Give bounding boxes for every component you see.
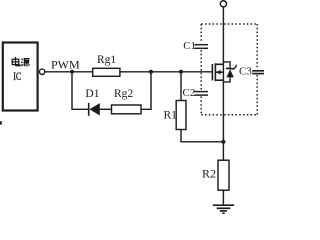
wire: D1 to Rg2: [100, 108, 112, 110]
label 电源 (drawn glyphs): [12, 57, 29, 67]
wire: drain/source main vertical: [222, 7, 224, 160]
terminal: open circle top (drain): [220, 1, 226, 7]
svg-text:C3: C3: [239, 66, 252, 78]
capacitor C2: [194, 92, 208, 96]
dashed box: MOSFET package with parasitics: [201, 24, 257, 115]
node: source/R1/R2 junction: [221, 140, 225, 144]
capacitor C3: [252, 71, 264, 74]
wire: R2 to ground: [222, 190, 224, 205]
node junction (x=151): [149, 70, 153, 74]
svg-text:C1: C1: [183, 40, 196, 52]
svg-text:D1: D1: [85, 88, 99, 100]
wire: down from PWM node to D1 row: [72, 72, 88, 110]
body diode of Q1: [223, 62, 236, 82]
node junction (x=181): [179, 70, 183, 74]
resistor Rg1: [93, 68, 120, 76]
resistor R2: [218, 160, 229, 190]
svg-text:C2: C2: [183, 87, 196, 99]
wire: Rg2 up to main line: [141, 72, 151, 110]
svg-text:Rg2: Rg2: [114, 88, 133, 100]
svg-text:IC: IC: [13, 71, 21, 83]
diode D1: [89, 103, 100, 116]
resistor Rg2: [112, 105, 142, 114]
stray mark at left edge: [0, 121, 2, 124]
transistor Q1 (N-MOSFET): [212, 63, 223, 81]
svg-text:R1: R1: [164, 110, 178, 122]
capacitor C1: [194, 45, 208, 49]
ground (earth): [213, 205, 234, 213]
wire: PWM output from IC circle to gate: [45, 71, 213, 73]
wire: R1 bottom to source node: [181, 130, 223, 142]
resistor R1: [176, 101, 186, 130]
svg-text:PWM: PWM: [51, 58, 80, 72]
wire: junction down to R1: [180, 72, 182, 101]
电: [12, 57, 20, 66]
svg-text:Rg1: Rg1: [97, 54, 116, 66]
node PWM junction (x=72): [70, 70, 74, 74]
terminal: open circle at IC PWM pin: [39, 69, 44, 74]
源: [21, 59, 29, 67]
power IC box U1: [3, 43, 38, 111]
svg-text:R2: R2: [202, 166, 216, 180]
